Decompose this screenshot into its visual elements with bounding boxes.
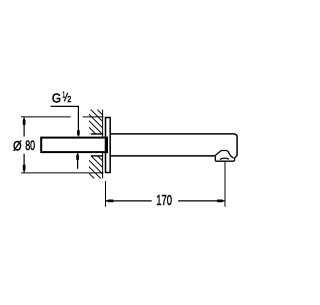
wall hatch upper block: [61, 106, 128, 134]
wall face line: [102, 110, 104, 179]
dim Ø80 dimension line with arrows: [23, 118, 26, 173]
dim 170 extension line left: [105, 181, 107, 207]
spout top edge: [110, 134, 237, 156]
dim 170 dimension line with arrows: [106, 200, 225, 203]
dim Ø80 extension line bottom: [21, 172, 103, 174]
escutcheon flange: [106, 118, 111, 173]
svg-text:Ø: Ø: [13, 138, 22, 153]
svg-text:80: 80: [25, 138, 35, 153]
aerator outlet arc: [220, 158, 229, 159]
svg-text:1: 1: [62, 90, 65, 99]
leader arrow down to pipe top: [77, 130, 80, 137]
spout bottom edge: [110, 155, 215, 157]
leader underline for G 1/2: [51, 106, 79, 130]
svg-text:2: 2: [67, 95, 71, 104]
inlet pipe (G 1/2 tailpiece): [41, 138, 107, 153]
svg-text:170: 170: [156, 193, 172, 209]
dim Ø80 extension line top: [21, 116, 103, 118]
wall opening top edge: [91, 133, 103, 135]
wall hatch lower block: [61, 152, 128, 180]
label Ø 80: [13, 138, 35, 153]
svg-text:G: G: [52, 91, 61, 106]
wall opening bottom edge: [91, 155, 103, 157]
label G 1/2: [52, 90, 71, 105]
aerator dome: [215, 151, 234, 159]
leader arrow up to pipe bottom: [76, 153, 79, 169]
aerator housing: [215, 156, 237, 162]
dim 170 extension line right: [224, 162, 226, 207]
